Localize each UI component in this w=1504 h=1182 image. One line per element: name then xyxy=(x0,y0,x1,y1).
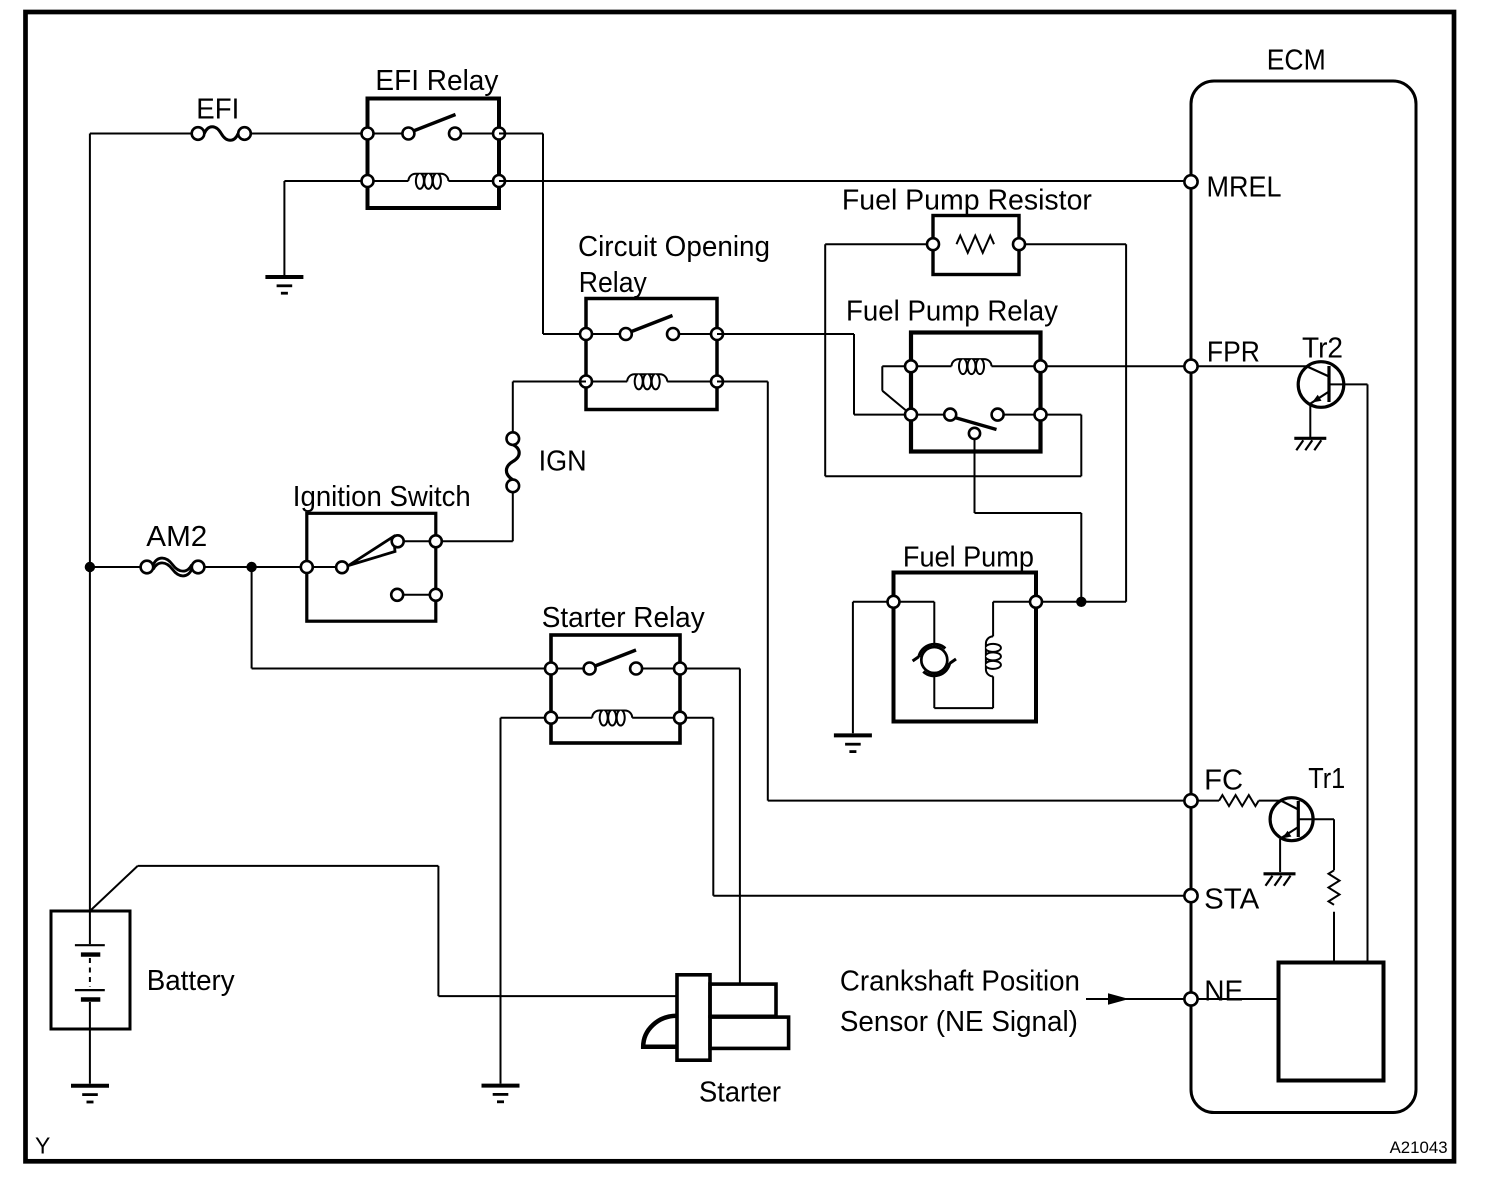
coil EFI relay xyxy=(408,174,448,189)
resistor element zigzag xyxy=(957,236,995,253)
switch contact starter relay xyxy=(595,650,636,666)
junction node fuel pump feed xyxy=(1076,597,1086,607)
wire ignition switch ST contact xyxy=(403,594,436,596)
coil FP relay xyxy=(952,359,992,374)
wire FPR net: FP relay coil to ECM FPR pin xyxy=(1041,365,1192,367)
svg-text:NE: NE xyxy=(1204,976,1243,1008)
wire ignition switch IG contact xyxy=(404,540,436,542)
wire fuel pump resistor right branch xyxy=(1019,244,1126,602)
svg-text:A21043: A21043 xyxy=(1390,1138,1448,1157)
wire FP relay coil row xyxy=(911,365,1041,367)
ECM pin MREL xyxy=(1184,175,1197,188)
relay Starter Relay box xyxy=(551,635,680,743)
junction node battery column xyxy=(85,562,95,572)
ground EFI relay xyxy=(265,277,303,293)
battery internal wires and plates xyxy=(75,911,105,1084)
svg-text:Fuel Pump Resistor: Fuel Pump Resistor xyxy=(842,185,1092,217)
switch contact FP relay xyxy=(953,417,997,430)
resistor Fuel Pump Resistor box xyxy=(933,216,1019,275)
ground fuel pump xyxy=(834,735,872,751)
fuse EFI xyxy=(192,127,251,141)
wire starter relay switch row xyxy=(551,668,680,670)
svg-text:Ignition Switch: Ignition Switch xyxy=(293,481,471,513)
wire FP relay pivot to fuel pump junction xyxy=(975,439,1082,602)
svg-text:IGN: IGN xyxy=(539,446,587,478)
svg-text:Starter: Starter xyxy=(699,1077,781,1109)
ECM pin STA xyxy=(1184,889,1197,902)
wire IGN fuse to ignition switch xyxy=(436,492,513,541)
svg-text:Battery: Battery xyxy=(147,965,235,997)
wire battery positive to starter xyxy=(90,866,677,996)
arrow crankshaft sensor input xyxy=(1086,993,1184,1005)
wire COR coil to IGN fuse xyxy=(513,382,586,433)
terminal circles starter relay xyxy=(545,663,557,675)
wire NE net xyxy=(1191,998,1279,1000)
junction node AM2 output xyxy=(246,562,256,572)
svg-text:AM2: AM2 xyxy=(146,521,207,553)
terminal circles fuel pump resistor xyxy=(927,238,939,250)
switch lever ignition xyxy=(349,537,396,566)
wire COR coil row xyxy=(586,381,717,383)
svg-text:MREL: MREL xyxy=(1207,172,1282,204)
svg-text:Crankshaft Position: Crankshaft Position xyxy=(840,966,1080,998)
svg-text:FPR: FPR xyxy=(1207,337,1260,369)
svg-text:Sensor (NE Signal): Sensor (NE Signal) xyxy=(840,1006,1078,1038)
svg-text:Tr1: Tr1 xyxy=(1308,763,1345,795)
wire FP relay coil-left loop to switch-left xyxy=(882,366,911,414)
wire COR switch row xyxy=(586,333,717,335)
battery box xyxy=(51,911,130,1029)
ground battery xyxy=(71,1086,109,1102)
wire fuel pump motor branch xyxy=(894,602,994,708)
svg-text:Y: Y xyxy=(35,1133,50,1159)
wire starter relay switch to starter xyxy=(680,669,740,985)
motor fuel pump xyxy=(913,644,956,675)
wire starter relay coil row xyxy=(551,717,680,719)
transistor Tr1 xyxy=(1270,763,1345,872)
svg-text:Tr2: Tr2 xyxy=(1302,332,1343,364)
ECM pin FC xyxy=(1184,794,1197,807)
svg-text:Circuit Opening: Circuit Opening xyxy=(578,231,770,263)
wire COR switch to fuel pump relay xyxy=(717,334,911,415)
ground starter relay xyxy=(482,1086,520,1102)
svg-text:EFI: EFI xyxy=(196,93,239,125)
coil COR xyxy=(627,374,667,389)
resistor FC internal xyxy=(1191,795,1281,806)
wire FC net: COR coil to ECM FC pin xyxy=(717,382,1191,801)
terminal circles EFI relay xyxy=(362,128,374,140)
wire AM2 row from battery junction xyxy=(90,566,307,568)
wire fuel pump resistor left branch xyxy=(825,244,1081,476)
terminal circles fuel pump xyxy=(888,596,900,608)
fuse IGN xyxy=(506,432,519,492)
wire starter relay coil to ground xyxy=(501,718,552,1084)
svg-text:EFI Relay: EFI Relay xyxy=(375,65,498,97)
svg-text:Relay: Relay xyxy=(579,267,647,299)
fusible link AM2 xyxy=(141,558,205,576)
svg-text:FC: FC xyxy=(1204,765,1243,797)
starter assembly xyxy=(643,975,788,1060)
terminal circles FP relay xyxy=(905,360,917,372)
ground Tr2 xyxy=(1294,438,1326,450)
wire battery positive vertical main feed xyxy=(89,134,91,912)
switch Ignition Switch box xyxy=(307,513,436,621)
wire EFI relay switch row xyxy=(368,133,500,135)
wire EFI relay coil to ground xyxy=(284,181,367,277)
wire EFI relay coil row xyxy=(368,180,500,182)
wire STA net: starter relay coil to ECM STA pin xyxy=(680,718,1191,896)
wire FP relay switch row xyxy=(911,414,1041,416)
relay Fuel Pump Relay box xyxy=(911,333,1041,452)
terminal circles ignition switch xyxy=(301,561,313,573)
svg-text:Fuel Pump Relay: Fuel Pump Relay xyxy=(846,296,1058,328)
ground Tr1 xyxy=(1264,874,1296,886)
wire EFI fuse to EFI relay xyxy=(251,133,368,135)
switch contact EFI relay xyxy=(412,115,456,132)
box NE signal block inside ECM xyxy=(1279,963,1384,1081)
ECM box xyxy=(1191,81,1416,1113)
wire ignition switch input xyxy=(307,566,342,568)
fuel pump box xyxy=(894,573,1037,722)
switch contact COR xyxy=(632,316,673,332)
relay Circuit Opening Relay box xyxy=(586,299,717,410)
svg-text:ECM: ECM xyxy=(1267,45,1326,77)
coil fuel pump xyxy=(986,636,1001,676)
coil starter relay xyxy=(592,711,632,726)
wire MREL net: EFI relay coil to ECM MREL pin xyxy=(499,180,1191,182)
wire EFI relay switch to Circuit Opening Relay xyxy=(499,134,586,335)
wire fuel pump coil branch top xyxy=(993,602,1036,637)
svg-text:STA: STA xyxy=(1204,883,1260,915)
wire fuel pump left to ground xyxy=(853,602,894,733)
relay EFI Relay box xyxy=(368,99,500,209)
wire AM2 junction to starter relay xyxy=(252,567,551,669)
svg-text:Starter Relay: Starter Relay xyxy=(542,602,705,634)
transistor Tr2 xyxy=(1191,332,1368,962)
wire EFI fuse feed top xyxy=(90,133,192,135)
svg-text:Fuel Pump: Fuel Pump xyxy=(903,542,1034,574)
terminal circles COR xyxy=(580,328,592,340)
resistor Tr1 collector vertical xyxy=(1329,870,1340,962)
ECM pin NE xyxy=(1184,992,1197,1005)
ECM pin FPR xyxy=(1184,360,1197,373)
